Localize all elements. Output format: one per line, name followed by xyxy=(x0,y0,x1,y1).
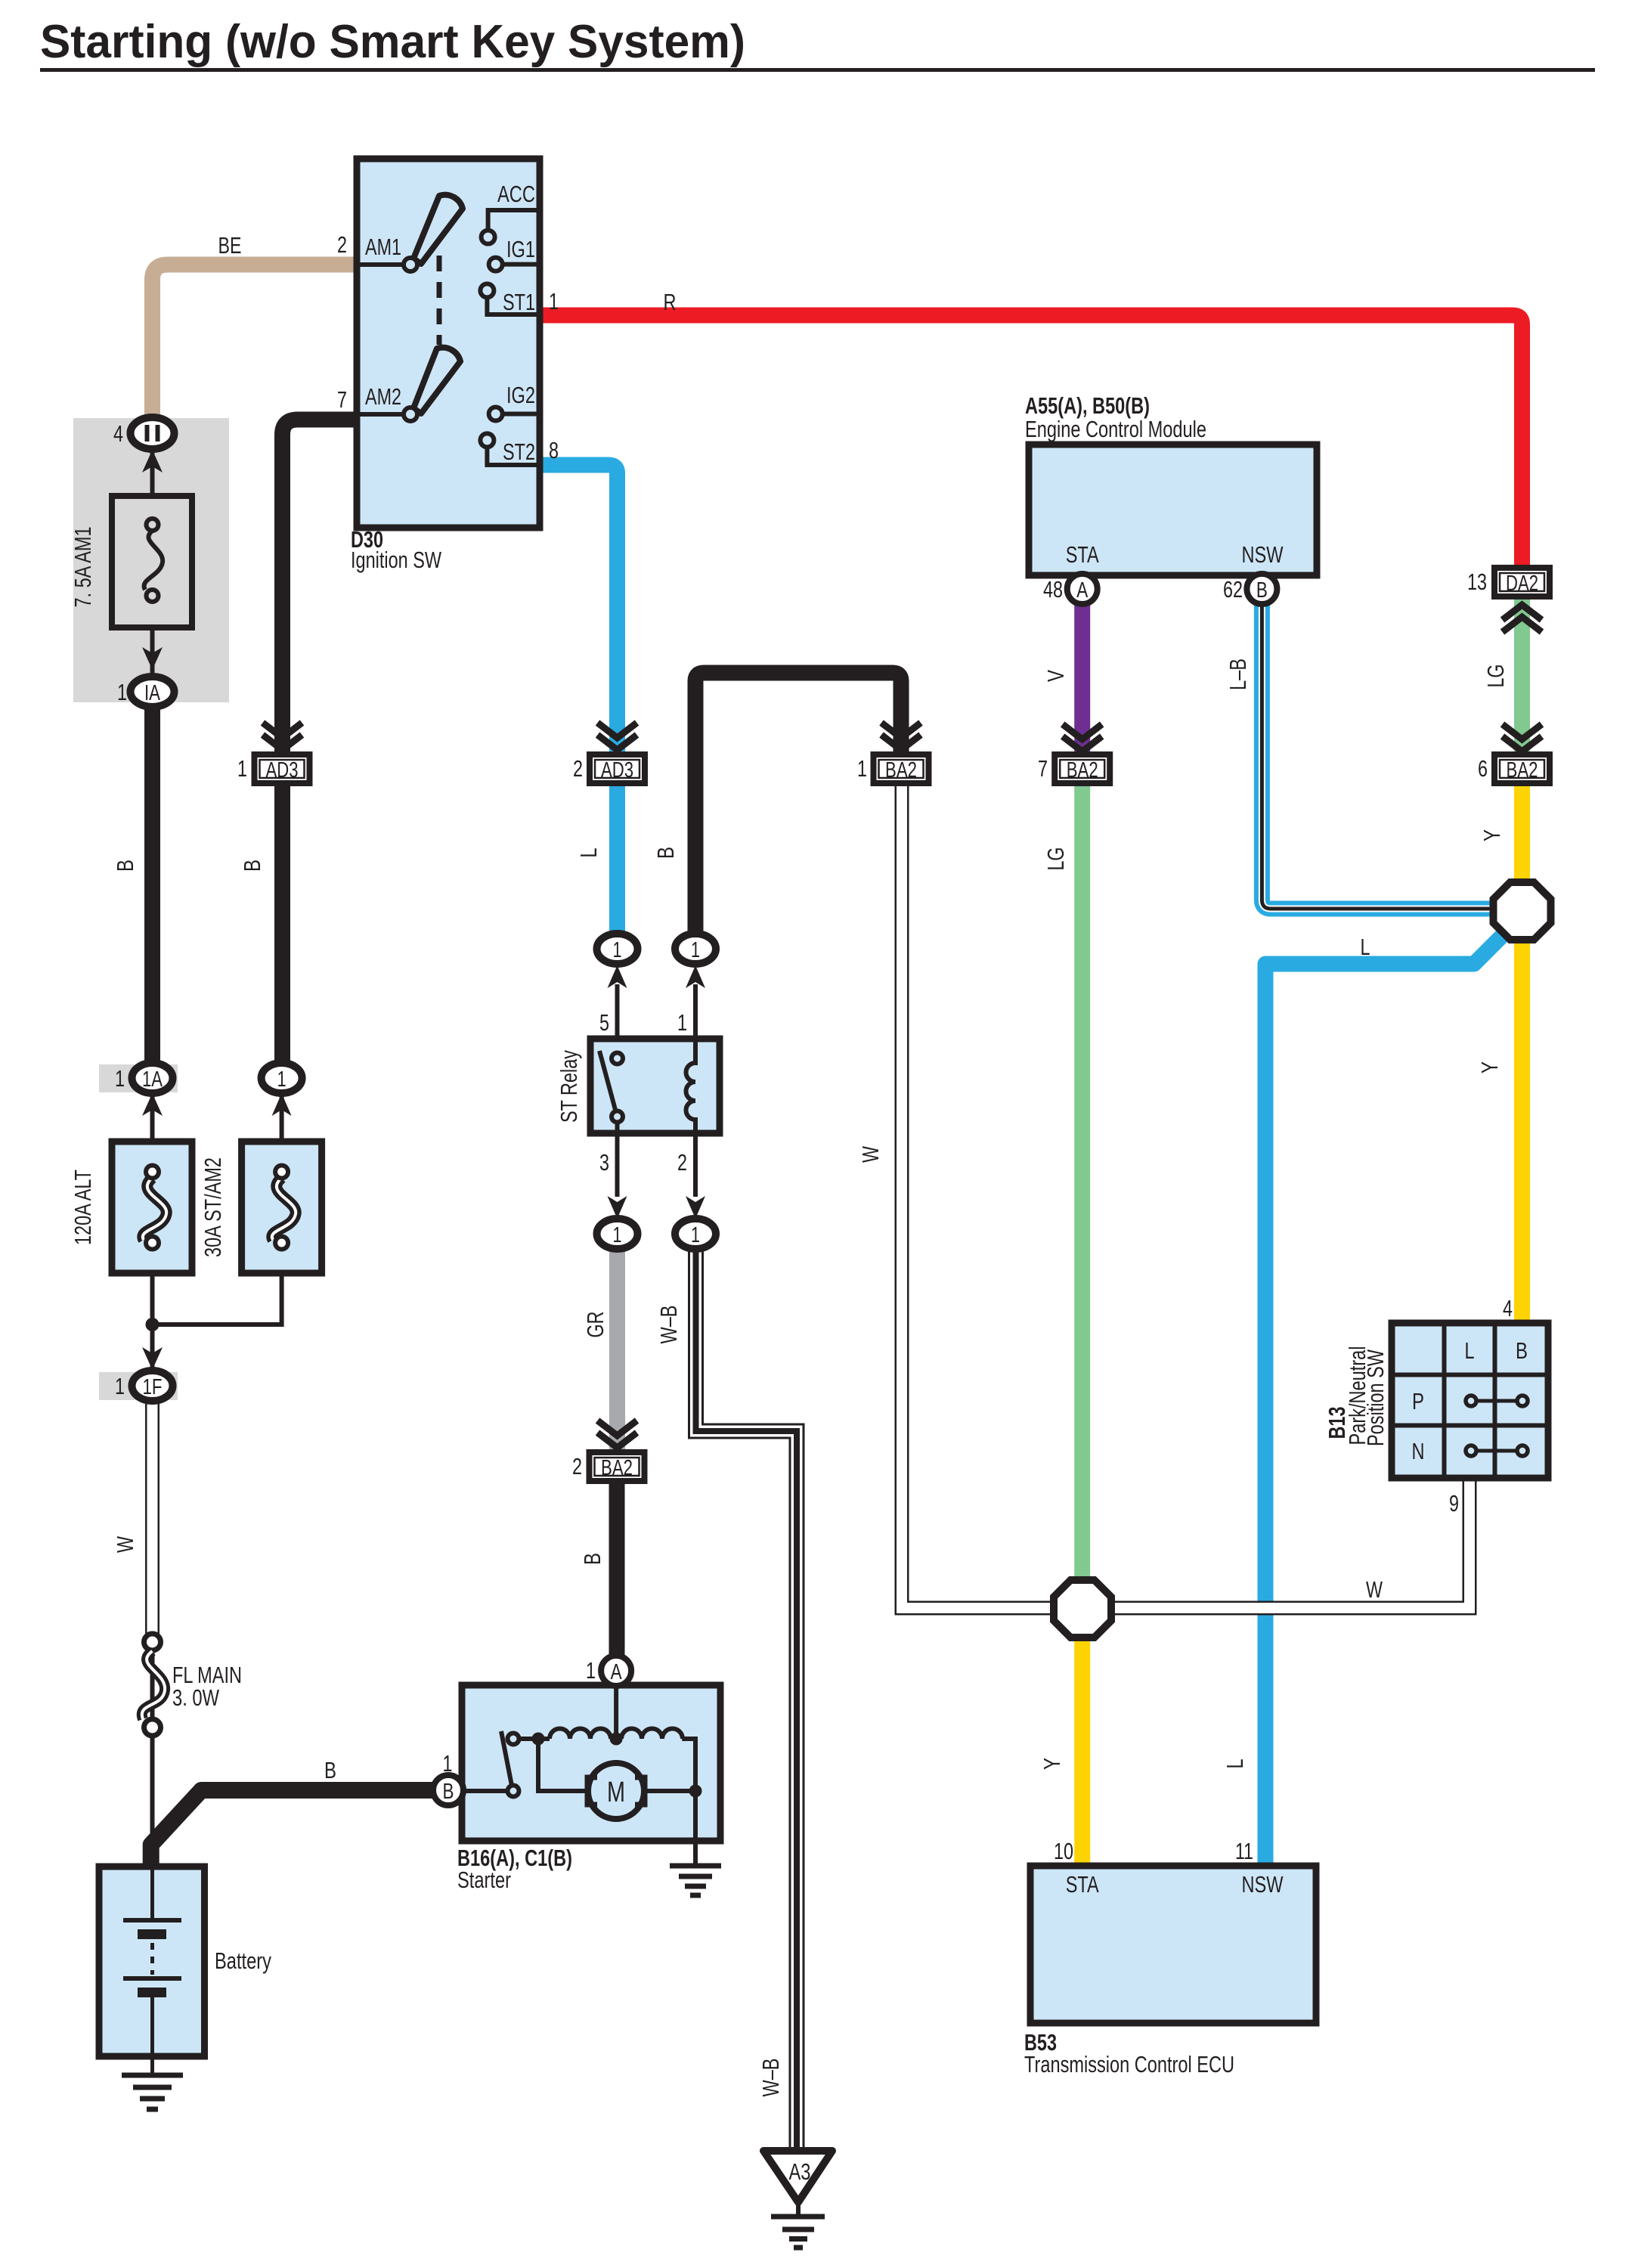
svg-text:DA2: DA2 xyxy=(1506,572,1538,596)
svg-text:L: L xyxy=(1465,1337,1475,1364)
svg-text:2: 2 xyxy=(677,1149,687,1176)
svg-text:7: 7 xyxy=(1038,755,1048,782)
svg-text:A: A xyxy=(1076,578,1089,603)
svg-text:1: 1 xyxy=(277,1067,286,1092)
svg-text:P: P xyxy=(1412,1388,1424,1414)
svg-text:A: A xyxy=(611,1660,623,1684)
svg-text:AM2: AM2 xyxy=(365,383,401,410)
svg-text:B: B xyxy=(324,1757,336,1783)
svg-text:62: 62 xyxy=(1223,576,1243,603)
svg-text:1: 1 xyxy=(857,755,867,782)
svg-text:1F: 1F xyxy=(143,1375,163,1399)
svg-text:W–B: W–B xyxy=(655,1306,682,1344)
svg-text:W: W xyxy=(112,1535,138,1553)
svg-text:L: L xyxy=(575,848,602,858)
svg-text:ST1: ST1 xyxy=(503,289,535,315)
svg-text:NSW: NSW xyxy=(1242,541,1284,568)
svg-text:Y: Y xyxy=(1479,829,1505,841)
svg-text:Starting (w/o Smart Key System: Starting (w/o Smart Key System) xyxy=(40,16,745,68)
svg-text:Y: Y xyxy=(1039,1758,1065,1770)
svg-text:1: 1 xyxy=(677,1009,687,1036)
svg-text:STA: STA xyxy=(1066,541,1099,568)
svg-text:AD3: AD3 xyxy=(266,758,299,782)
svg-text:L: L xyxy=(1222,1759,1248,1769)
svg-text:9: 9 xyxy=(1449,1490,1459,1517)
svg-text:4: 4 xyxy=(1503,1295,1513,1321)
svg-text:1: 1 xyxy=(586,1657,596,1684)
svg-text:B: B xyxy=(112,860,138,872)
svg-text:120A ALT: 120A ALT xyxy=(70,1170,96,1245)
svg-text:1: 1 xyxy=(443,1750,453,1777)
svg-text:Ignition SW: Ignition SW xyxy=(351,547,442,573)
svg-text:AM1: AM1 xyxy=(365,234,401,260)
svg-text:LG: LG xyxy=(1482,665,1509,688)
svg-text:BA2: BA2 xyxy=(885,758,917,782)
svg-text:A55(A), B50(B): A55(A), B50(B) xyxy=(1025,392,1150,419)
svg-text:ACC: ACC xyxy=(497,181,535,207)
svg-text:B: B xyxy=(1256,578,1268,603)
svg-text:R: R xyxy=(664,289,677,315)
svg-text:STA: STA xyxy=(1066,1871,1099,1898)
svg-text:6: 6 xyxy=(1478,755,1488,782)
svg-text:1: 1 xyxy=(613,1223,622,1247)
svg-text:LG: LG xyxy=(1042,847,1069,871)
svg-text:IG1: IG1 xyxy=(506,236,535,262)
svg-text:IA: IA xyxy=(144,681,160,705)
svg-text:1: 1 xyxy=(115,1373,125,1399)
svg-text:W–B: W–B xyxy=(757,2059,784,2097)
svg-text:10: 10 xyxy=(1054,1838,1073,1864)
svg-text:B: B xyxy=(239,860,265,872)
svg-text:30A ST/AM2: 30A ST/AM2 xyxy=(200,1157,226,1257)
svg-text:M: M xyxy=(607,1777,625,1808)
svg-text:V: V xyxy=(1042,670,1069,682)
svg-text:Y: Y xyxy=(1476,1061,1503,1074)
svg-text:A3: A3 xyxy=(789,2158,811,2185)
svg-text:NSW: NSW xyxy=(1242,1871,1284,1898)
svg-text:BA2: BA2 xyxy=(1507,758,1538,782)
svg-text:BE: BE xyxy=(218,232,242,259)
svg-text:L–B: L–B xyxy=(1225,658,1251,690)
svg-text:W: W xyxy=(1366,1576,1383,1603)
svg-text:5: 5 xyxy=(599,1009,609,1036)
svg-text:1: 1 xyxy=(237,755,247,782)
svg-text:GR: GR xyxy=(582,1312,609,1338)
svg-text:BA2: BA2 xyxy=(1067,758,1098,782)
svg-text:L: L xyxy=(1361,934,1370,960)
svg-text:1: 1 xyxy=(691,1223,700,1247)
svg-text:1: 1 xyxy=(117,679,127,705)
svg-text:B: B xyxy=(652,847,679,859)
svg-text:11: 11 xyxy=(1235,1838,1253,1864)
svg-text:IG2: IG2 xyxy=(506,382,535,408)
svg-text:8: 8 xyxy=(549,437,559,463)
svg-text:3: 3 xyxy=(599,1149,609,1176)
svg-text:1A: 1A xyxy=(142,1067,163,1092)
svg-text:BA2: BA2 xyxy=(601,1456,633,1480)
svg-text:2: 2 xyxy=(572,1453,582,1479)
svg-text:3. 0W: 3. 0W xyxy=(172,1684,220,1711)
svg-text:Battery: Battery xyxy=(215,1947,271,1974)
svg-text:1: 1 xyxy=(613,938,622,962)
svg-text:ST2: ST2 xyxy=(503,438,535,465)
svg-text:AD3: AD3 xyxy=(601,758,633,782)
svg-text:B: B xyxy=(1516,1337,1528,1364)
svg-text:1: 1 xyxy=(549,288,559,314)
svg-text:2: 2 xyxy=(573,755,583,782)
svg-text:B: B xyxy=(579,1553,605,1565)
svg-text:W: W xyxy=(857,1145,884,1163)
svg-text:4: 4 xyxy=(113,420,123,447)
svg-text:Position SW: Position SW xyxy=(1362,1349,1389,1446)
svg-text:Transmission Control ECU: Transmission Control ECU xyxy=(1024,2051,1234,2077)
svg-text:7. 5A AM1: 7. 5A AM1 xyxy=(70,527,96,608)
svg-text:B: B xyxy=(443,1780,454,1804)
svg-text:48: 48 xyxy=(1043,576,1063,603)
svg-text:13: 13 xyxy=(1467,569,1487,595)
svg-text:7: 7 xyxy=(337,386,347,413)
svg-text:Starter: Starter xyxy=(457,1867,511,1893)
svg-text:1: 1 xyxy=(691,938,700,962)
svg-text:2: 2 xyxy=(337,231,347,258)
svg-text:1: 1 xyxy=(115,1065,125,1092)
svg-text:ST Relay: ST Relay xyxy=(556,1050,582,1123)
svg-text:Engine Control Module: Engine Control Module xyxy=(1025,416,1206,442)
svg-text:N: N xyxy=(1412,1438,1425,1464)
